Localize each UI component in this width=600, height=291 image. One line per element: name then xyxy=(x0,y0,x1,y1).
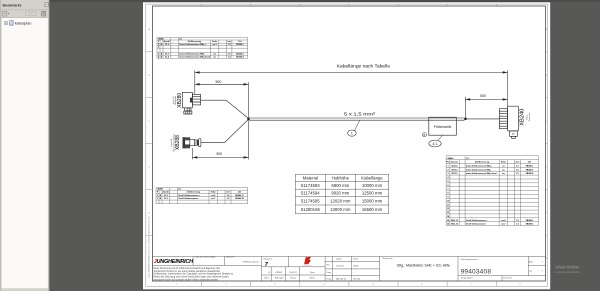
sheet inner margin border xyxy=(146,4,548,286)
balloon 4.1 xyxy=(429,140,441,147)
connector XB288 (bottom left) xyxy=(183,137,185,148)
JH flag logo xyxy=(304,257,311,264)
title block grid xyxy=(152,256,545,281)
page sheet xyxy=(143,2,550,289)
bookmarks panel xyxy=(0,0,50,291)
cell labels row 1 xyxy=(195,256,478,261)
dimension: 500 (right) xyxy=(465,97,507,118)
dimension: 500 (bottom left) xyxy=(193,121,249,160)
pin table XB288 (bottom left) xyxy=(156,188,248,204)
balloon 1 xyxy=(348,130,357,136)
Pruefschild box xyxy=(429,117,457,135)
legal text xyxy=(153,267,234,282)
pin table XB280 (top left) xyxy=(157,38,248,59)
svg-text:Go to Settings to activate Win: Go to Settings to activate Windows. xyxy=(554,270,580,274)
wire XB280 to junction xyxy=(201,100,248,118)
small circle marker xyxy=(422,133,426,137)
Blatt / von xyxy=(461,261,544,280)
plus box xyxy=(4,22,7,25)
zone letters side margins xyxy=(148,28,547,260)
dimension: Kabellaenge nach Tabelle (overall) xyxy=(195,70,508,106)
svg-text:Activate Windows: Activate Windows xyxy=(555,264,579,269)
junction node left xyxy=(247,118,249,120)
title bar xyxy=(0,9,50,11)
svg-text:Bookmarks: Bookmarks xyxy=(3,3,22,7)
Erst/Datum/Name rows xyxy=(327,258,361,281)
zone numbers bottom margin xyxy=(176,284,521,286)
tree area xyxy=(2,18,48,288)
dimension: 500 (top left) xyxy=(195,82,249,117)
zone ticks top/bottom xyxy=(146,4,548,286)
connector XB280 (top left) xyxy=(182,92,200,114)
svg-text:Kabelplan: Kabelplan xyxy=(15,21,32,25)
material table xyxy=(295,174,388,214)
index rows xyxy=(264,271,315,280)
connector XB240 (right) xyxy=(499,106,518,139)
cable (double line) xyxy=(249,118,465,120)
wire to XB240 xyxy=(467,118,500,120)
watermark xyxy=(554,264,580,274)
drawing frame xyxy=(152,6,545,281)
wire XB288 to junction xyxy=(201,120,248,143)
junction node right xyxy=(464,118,466,120)
toolbar xyxy=(0,16,50,18)
page icon xyxy=(10,21,13,26)
pin table XB240 (right) xyxy=(446,156,538,226)
